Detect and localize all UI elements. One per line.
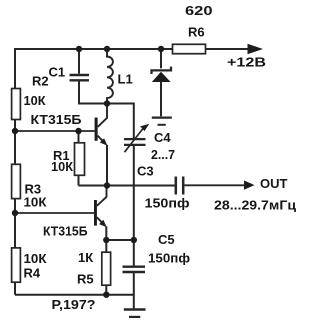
svg-text:+12В: +12В bbox=[227, 55, 266, 70]
wire bottom ground rail bbox=[15, 294, 134, 296]
zener diode VD1 bbox=[152, 67, 172, 74]
svg-text:C1: C1 bbox=[49, 65, 66, 80]
svg-text:620: 620 bbox=[185, 3, 213, 18]
wire output node rail bbox=[79, 185, 175, 187]
wire Q2 base bbox=[16, 212, 94, 214]
resistor R1 bbox=[75, 143, 85, 176]
svg-text:C3: C3 bbox=[137, 164, 154, 179]
svg-text:2...7: 2...7 bbox=[151, 147, 175, 162]
svg-text:КТ315Б: КТ315Б bbox=[43, 224, 88, 239]
svg-text:Р,197?: Р,197? bbox=[52, 297, 96, 312]
transistor Q2 bbox=[94, 186, 107, 227]
wire C3 to OUT bbox=[185, 184, 246, 186]
node C1 top rail bbox=[76, 46, 82, 52]
node Q1 base rail bbox=[12, 128, 18, 134]
svg-text:10К: 10К bbox=[24, 251, 47, 266]
svg-text:28...29.7мГц: 28...29.7мГц bbox=[214, 198, 296, 213]
wire R1 bottom bbox=[78, 176, 80, 186]
inductor L1 bbox=[107, 49, 113, 104]
node Q1 emitter / output bbox=[104, 182, 110, 188]
node Q2 base rail bbox=[12, 210, 18, 216]
wire R6 to +12V arrow bbox=[206, 48, 249, 50]
wire C5 top lead bbox=[133, 240, 135, 266]
+12V arrowhead bbox=[248, 44, 264, 54]
resistor R6 bbox=[173, 44, 206, 53]
wire C1 top lead bbox=[78, 49, 80, 74]
wire Q1 emitter to node bbox=[106, 145, 108, 186]
svg-text:C5: C5 bbox=[158, 232, 175, 247]
resistor R5 bbox=[102, 252, 111, 285]
svg-text:КТ315Б: КТ315Б bbox=[31, 112, 82, 127]
node L1 top rail bbox=[104, 46, 110, 52]
OUT arrowhead bbox=[244, 180, 255, 189]
svg-text:C4: C4 bbox=[154, 130, 171, 145]
wire Q2 emitter node to C5 bbox=[106, 239, 134, 241]
wire C4 bottom to emitter node bbox=[133, 146, 135, 240]
capacitor C1 bbox=[70, 75, 90, 80]
resistor R2 bbox=[12, 89, 21, 120]
wire R1 tap from base bbox=[78, 131, 80, 143]
svg-text:R5: R5 bbox=[77, 272, 94, 287]
ground under VD1 bbox=[152, 116, 172, 118]
wire zener to ground bbox=[160, 82, 162, 116]
ground symbol bottom bbox=[124, 308, 146, 310]
wire zener branch bbox=[160, 49, 162, 68]
node R1 base tap bbox=[75, 128, 81, 134]
wire to bottom ground bbox=[133, 295, 135, 309]
capacitor C3 bbox=[176, 177, 183, 195]
wire R5 bottom bbox=[105, 285, 107, 295]
wire tank node to C4 bbox=[107, 104, 134, 139]
node Q2 emitter bbox=[103, 237, 109, 243]
node C4/C5 junction bbox=[131, 237, 137, 243]
wire Q1 base bbox=[16, 130, 95, 132]
svg-text:R6: R6 bbox=[188, 25, 205, 40]
transistor Q1 bbox=[95, 105, 108, 146]
svg-text:10К: 10К bbox=[24, 93, 46, 108]
svg-text:10К: 10К bbox=[51, 159, 73, 174]
node tank bottom bbox=[104, 100, 110, 106]
wire C1 bottom lead bbox=[79, 81, 107, 103]
svg-text:150пф: 150пф bbox=[148, 251, 190, 266]
capacitor C5 bbox=[123, 267, 146, 272]
wire C5 bottom lead bbox=[133, 273, 135, 295]
resistor R4 bbox=[12, 248, 21, 282]
trimmer arrow of C4 bbox=[125, 129, 144, 153]
trimmer capacitor C4 bbox=[124, 139, 146, 145]
wire Q2 emitter bbox=[105, 226, 107, 240]
node R5 bottom rail bbox=[103, 292, 109, 298]
svg-text:R4: R4 bbox=[24, 266, 41, 281]
resistor R3 bbox=[12, 164, 21, 198]
svg-text:OUT: OUT bbox=[260, 176, 288, 191]
svg-text:L1: L1 bbox=[118, 72, 133, 87]
wire R5 top bbox=[105, 240, 107, 252]
svg-text:10К: 10К bbox=[24, 195, 47, 210]
node zener top rail bbox=[158, 46, 164, 52]
svg-text:R2: R2 bbox=[32, 73, 49, 88]
wire top supply rail bbox=[14, 48, 173, 50]
wire left bias rail bbox=[14, 48, 16, 295]
svg-text:1К: 1К bbox=[78, 250, 93, 265]
svg-text:150пф: 150пф bbox=[145, 196, 190, 211]
